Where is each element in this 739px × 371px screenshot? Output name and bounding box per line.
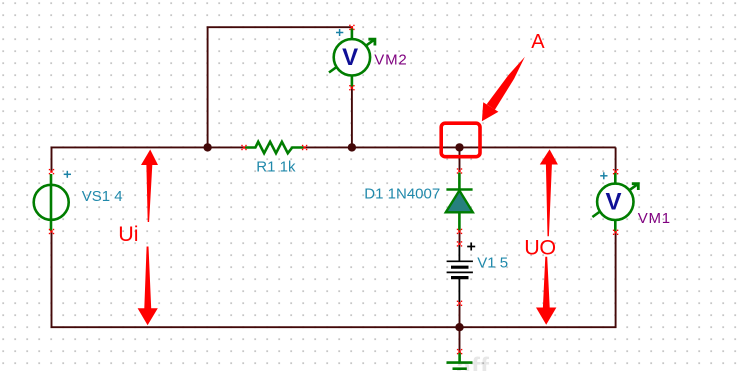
svg-text:D1 1N4007: D1 1N4007 xyxy=(364,186,440,203)
svg-text:Ui: Ui xyxy=(118,222,138,246)
svg-text:VS1 4: VS1 4 xyxy=(82,188,123,205)
svg-text:R1 1k: R1 1k xyxy=(256,159,296,176)
svg-text:V1 5: V1 5 xyxy=(477,255,508,272)
svg-text:A: A xyxy=(531,31,545,53)
svg-text:UO: UO xyxy=(524,236,556,260)
svg-text:V: V xyxy=(606,188,622,215)
svg-text:aff: aff xyxy=(456,352,490,371)
svg-text:VM2: VM2 xyxy=(374,51,407,68)
svg-text:VM1: VM1 xyxy=(638,210,671,227)
svg-text:V: V xyxy=(342,44,358,71)
